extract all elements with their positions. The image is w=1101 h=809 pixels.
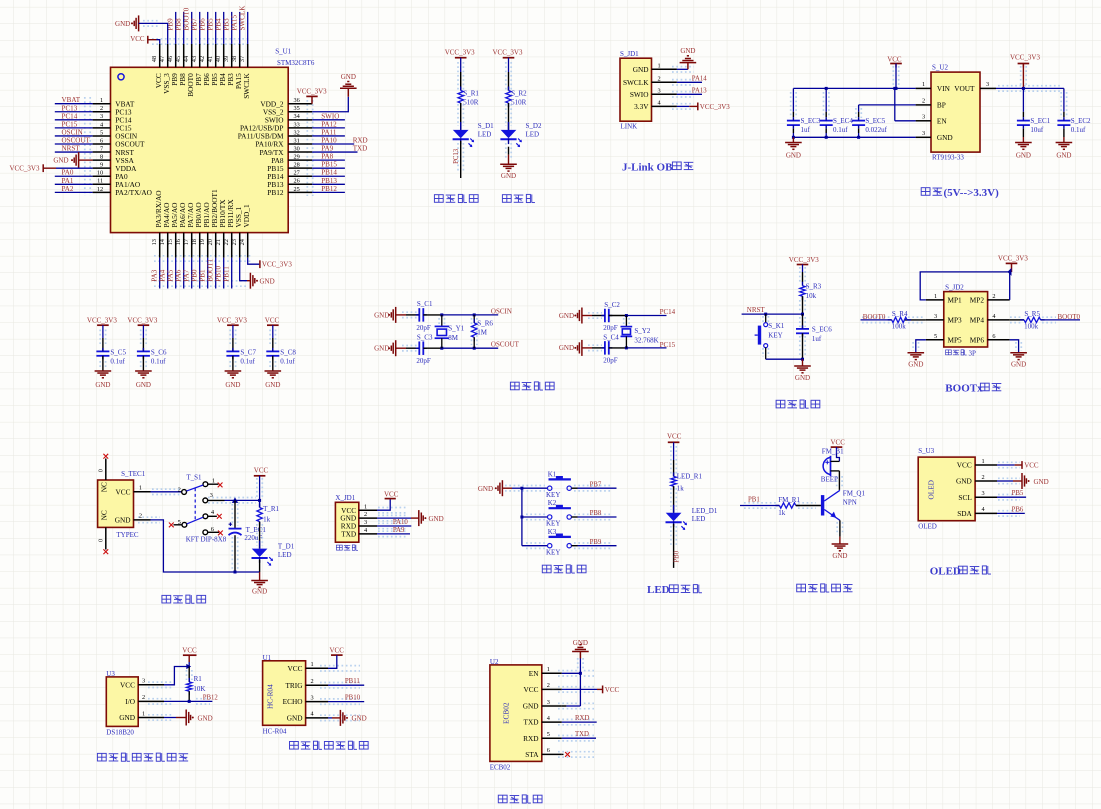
wire: [207, 12, 209, 44]
wire: [312, 143, 354, 145]
svg-text:5: 5: [100, 129, 103, 136]
pin 3 (SWIO): [652, 93, 677, 95]
switch K2: [548, 515, 552, 519]
capacitor S_C5: [96, 350, 109, 352]
pin 4 stub: [208, 515, 217, 517]
svg-text:PA11: PA11: [321, 128, 337, 136]
svg-text:44: 44: [183, 55, 190, 62]
pin 3 (SCL): [975, 496, 997, 498]
pin 44 (BOOT0): [191, 44, 193, 67]
wire: [231, 12, 233, 44]
svg-text:BOOTx: BOOTx: [945, 383, 983, 395]
svg-text:PB1: PB1: [199, 269, 207, 282]
svg-text:2: 2: [992, 293, 995, 300]
wire NRST: [742, 313, 803, 315]
pin 4 (GND): [306, 717, 328, 719]
svg-text:PB5: PB5: [206, 18, 214, 31]
svg-text:PB15: PB15: [321, 161, 337, 169]
svg-text:S_JD1: S_JD1: [620, 50, 639, 58]
svg-text:VCC_3V3: VCC_3V3: [217, 317, 247, 325]
svg-text:U3: U3: [106, 670, 115, 678]
no-connect flag: [218, 531, 223, 536]
wire: [199, 12, 201, 44]
svg-text:HC-R04: HC-R04: [263, 727, 287, 735]
svg-text:1uf: 1uf: [801, 126, 811, 134]
wire: [609, 315, 627, 317]
svg-text:S_EC5: S_EC5: [865, 117, 885, 125]
svg-text:S_R1: S_R1: [463, 90, 479, 98]
svg-text:GND: GND: [1034, 478, 1049, 486]
power symbol VCC: [831, 446, 843, 448]
wire: [312, 151, 357, 153]
svg-text:S_EC3: S_EC3: [801, 117, 821, 125]
svg-text:1M: 1M: [477, 329, 488, 337]
svg-text:KEY: KEY: [546, 548, 560, 556]
svg-text:1: 1: [100, 97, 103, 104]
pin 6 (OSCOUT): [93, 143, 111, 145]
ground: [1015, 142, 1032, 144]
svg-text:GND: GND: [832, 552, 847, 560]
svg-text:SCL: SCL: [958, 493, 972, 502]
pin 47 (VSS_3): [167, 44, 169, 67]
wire VOUT: [996, 87, 1064, 89]
wire: [240, 258, 247, 281]
svg-text:PB8: PB8: [174, 18, 182, 31]
wire OSCIN: [442, 314, 498, 316]
svg-text:STA: STA: [525, 750, 539, 759]
svg-text:OLED: OLED: [926, 480, 935, 499]
power symbol VCC_3V3: [797, 264, 809, 266]
junction: [440, 347, 443, 350]
op-amp U1 body (MCU STM32C8T6): [111, 67, 289, 232]
svg-text:VCC_3V3: VCC_3V3: [445, 49, 475, 57]
svg-text:PB7: PB7: [590, 481, 602, 488]
wire BOOT0: [1041, 319, 1080, 321]
power symbol VCC: [668, 441, 680, 443]
wire: [377, 517, 411, 519]
title 复位电路: [776, 400, 785, 408]
junction: [801, 358, 804, 361]
pin 37 (SWCLK): [247, 44, 249, 67]
power symbol VCC_3V3 tick: [42, 164, 44, 172]
svg-text:NC: NC: [100, 482, 109, 492]
switch K1: [548, 486, 552, 490]
wire: [1010, 319, 1024, 321]
chip orientation mark: [118, 74, 124, 80]
module U2 body: [490, 665, 542, 762]
svg-text:5: 5: [934, 333, 937, 340]
svg-text:FM_Q1: FM_Q1: [843, 489, 866, 497]
svg-text:SDA: SDA: [957, 509, 972, 518]
svg-text:2: 2: [547, 682, 550, 689]
svg-text:RXD: RXD: [523, 734, 538, 743]
pin 3 (GND): [542, 705, 562, 707]
wire GND bus: [151, 520, 260, 572]
svg-text:20pF: 20pF: [603, 324, 618, 332]
pin 33 (PA12/USB/DP): [288, 127, 312, 129]
ground (VSSA): [78, 152, 80, 168]
svg-text:3: 3: [100, 113, 103, 120]
svg-text:GND: GND: [956, 477, 972, 486]
svg-text:1: 1: [212, 477, 215, 484]
pin 13 (PA3/RX/AO): [159, 233, 161, 258]
svg-text:R1: R1: [194, 675, 203, 683]
svg-text:510R: 510R: [511, 98, 526, 106]
svg-text:GND: GND: [260, 277, 275, 285]
pin 3 (VOUT): [980, 87, 996, 89]
title 按键电路: [542, 565, 551, 573]
wire: [272, 356, 274, 371]
svg-text:0.1uf: 0.1uf: [280, 358, 295, 366]
pin 3 (MP3): [926, 319, 944, 321]
svg-text:PA2: PA2: [62, 185, 74, 193]
svg-text:MP1: MP1: [948, 296, 963, 305]
pin 5 (RXD): [542, 737, 562, 739]
pin 39 (PB3): [231, 44, 233, 67]
svg-text:S_R6: S_R6: [477, 320, 493, 328]
wire: [151, 491, 182, 493]
svg-text:BEEP: BEEP: [821, 476, 838, 484]
wire: [328, 701, 364, 703]
svg-text:PA4: PA4: [159, 269, 167, 281]
svg-text:2: 2: [139, 513, 142, 520]
wire loop MP2-MP1: [920, 272, 1010, 300]
wire: [55, 183, 93, 185]
pin 8 (VSSA): [93, 159, 111, 161]
svg-text:12: 12: [97, 186, 103, 193]
pin 25 (PB12): [288, 191, 312, 193]
wire: [312, 191, 345, 193]
wire: [1022, 64, 1024, 89]
pin 1 (VBAT): [93, 103, 111, 105]
svg-text:20pF: 20pF: [416, 324, 431, 332]
svg-text:NRST: NRST: [62, 145, 81, 153]
svg-text:GND: GND: [198, 714, 213, 722]
capacitor S_EC2: [1063, 88, 1065, 111]
svg-text:GND: GND: [559, 312, 574, 320]
svg-text:K1: K1: [548, 470, 557, 478]
svg-text:MP3: MP3: [948, 316, 963, 325]
svg-text:PB13: PB13: [321, 177, 337, 185]
svg-text:0: 0: [97, 469, 104, 472]
svg-text:28: 28: [294, 162, 300, 169]
ground (pin4): [339, 710, 341, 726]
svg-text:GND: GND: [352, 715, 367, 723]
buzzer FM_B1: [823, 457, 830, 474]
wire: [571, 487, 577, 489]
svg-text:PB3: PB3: [222, 18, 230, 31]
resistor S_R5: [1024, 317, 1041, 322]
svg-text:43: 43: [191, 56, 198, 62]
wire: [792, 137, 794, 142]
svg-text:SWIO: SWIO: [321, 112, 339, 120]
svg-text:VCC: VCC: [120, 680, 135, 689]
svg-text:OSCIN: OSCIN: [62, 128, 83, 136]
svg-text:9: 9: [100, 162, 103, 169]
pin 1 (VCC): [975, 464, 997, 466]
svg-text:21: 21: [215, 239, 222, 245]
wire: [460, 58, 462, 72]
switch T_S1: [182, 490, 187, 495]
wire: [423, 347, 442, 349]
wire: [997, 480, 1013, 482]
svg-text:PB9: PB9: [590, 539, 602, 546]
svg-text:GND: GND: [53, 157, 68, 165]
svg-text:3: 3: [934, 313, 937, 320]
svg-text:1: 1: [364, 503, 367, 510]
junction: [440, 313, 443, 316]
svg-text:GND: GND: [115, 20, 130, 28]
wire: [677, 93, 702, 95]
wire: [571, 516, 577, 518]
svg-text:2: 2: [100, 105, 103, 112]
junction: [625, 314, 628, 317]
label 下载口: [336, 545, 342, 550]
junction: [188, 700, 191, 703]
capacitor S_EC6: [802, 314, 804, 329]
junction: [1008, 268, 1012, 276]
svg-text:10k: 10k: [806, 292, 817, 300]
pin 2 (PC13): [93, 111, 111, 113]
pin 2 (GND): [975, 480, 997, 482]
svg-text:EN: EN: [529, 669, 539, 678]
svg-text:VCC_3V3: VCC_3V3: [127, 317, 157, 325]
svg-text:PA14: PA14: [692, 75, 707, 82]
svg-text:14: 14: [159, 238, 166, 245]
pin 24 (VDD_1): [247, 233, 249, 258]
pin 4 (PC15): [93, 127, 111, 129]
svg-text:TYPEC: TYPEC: [116, 531, 138, 539]
wire: [508, 147, 510, 155]
svg-text:10K: 10K: [193, 685, 205, 693]
power symbol VCC_3V3: [1018, 63, 1030, 65]
wire: [188, 655, 190, 662]
svg-text:VCC_3V3: VCC_3V3: [262, 261, 292, 269]
wire: [766, 358, 803, 360]
svg-text:PA10: PA10: [321, 137, 337, 145]
resistor LED_R1: [671, 476, 676, 486]
module S_U3 body: [918, 457, 975, 521]
ground (pin2): [418, 510, 420, 526]
pin 31 (PA10/RX): [288, 143, 312, 145]
wire: [199, 258, 201, 289]
svg-text:5: 5: [547, 731, 550, 738]
pin 26 (PB13): [288, 183, 312, 185]
svg-text:VCC: VCC: [831, 438, 846, 446]
svg-text:PB12: PB12: [321, 185, 337, 193]
wire: [55, 135, 93, 137]
pin 4 (TXD): [359, 533, 377, 535]
svg-text:VCC: VCC: [957, 461, 972, 470]
wire: [838, 471, 840, 490]
wire: [582, 347, 592, 349]
svg-text:VCC: VCC: [605, 686, 620, 694]
svg-text:RT9193-33: RT9193-33: [932, 154, 964, 162]
svg-text:PB4: PB4: [214, 18, 222, 31]
wire: [312, 175, 345, 177]
svg-text:10uf: 10uf: [1030, 126, 1044, 134]
pin 20 (PB2/BOOT1): [215, 233, 217, 258]
svg-text:100k: 100k: [1024, 322, 1039, 330]
svg-text:VCC: VCC: [887, 56, 902, 64]
wire: [396, 347, 406, 349]
no-connect flag: [103, 454, 108, 459]
svg-text:VCC_3V3: VCC_3V3: [700, 103, 730, 111]
svg-text:SWCLK: SWCLK: [238, 5, 246, 31]
svg-text:PB0: PB0: [674, 550, 681, 562]
ground (pin1): [687, 63, 689, 70]
wire: [55, 151, 93, 153]
power symbol VCC: [183, 654, 197, 656]
svg-text:X_JD1: X_JD1: [335, 494, 355, 502]
junction: [764, 313, 767, 316]
connector S_JD1 body: [620, 58, 652, 121]
svg-text:11: 11: [97, 178, 103, 185]
wire: [521, 488, 523, 546]
pin 35 (VSS_2): [288, 111, 312, 113]
pin 19 (PB1/AO): [207, 233, 209, 258]
svg-text:K3: K3: [548, 528, 557, 536]
pin 5 stub: [174, 524, 183, 526]
title 电源电路: [162, 595, 171, 603]
wire: [508, 103, 510, 130]
wire: [55, 143, 93, 145]
wire EN-GND link: [562, 672, 581, 674]
pin 23 (VSS_1): [239, 233, 241, 258]
pin 29 (PA8): [288, 159, 312, 161]
junction: [625, 346, 628, 349]
svg-text:1: 1: [922, 81, 925, 88]
junction: [234, 571, 237, 574]
svg-text:PB12: PB12: [267, 188, 284, 197]
LED S_D2: [508, 122, 510, 130]
title 环境温度采集模块: [97, 753, 106, 761]
ground (pin2): [1021, 473, 1023, 489]
svg-text:16: 16: [175, 239, 182, 245]
wire: [148, 39, 157, 41]
svg-text:17: 17: [183, 239, 190, 245]
svg-text:VCC: VCC: [115, 487, 130, 496]
no-connect flag: [103, 549, 108, 554]
wire: [562, 705, 567, 707]
wire: [175, 258, 177, 289]
svg-text:GND: GND: [1016, 151, 1031, 159]
svg-text:U1: U1: [263, 654, 272, 662]
wire OSCOUT: [442, 347, 498, 349]
pin 1 (GND): [138, 717, 164, 719]
svg-text:1: 1: [139, 485, 142, 492]
pin 6 (STA): [542, 753, 562, 755]
wire: [377, 525, 411, 527]
svg-text:3: 3: [658, 87, 661, 94]
svg-text:PC13: PC13: [453, 148, 460, 164]
power symbol VCC tick: [602, 686, 604, 694]
svg-text:VBAT: VBAT: [62, 96, 81, 104]
svg-text:LED_R1: LED_R1: [677, 472, 703, 480]
pin 9 (VDDA): [93, 167, 111, 169]
pin 16 (PA6/AO): [183, 233, 185, 258]
svg-text:PA10: PA10: [393, 519, 408, 526]
svg-text:TRIG: TRIG: [285, 681, 303, 690]
wire: [740, 505, 779, 507]
svg-text:S_C6: S_C6: [151, 349, 167, 357]
svg-text:PC14: PC14: [62, 112, 78, 120]
svg-text:PB0: PB0: [191, 269, 199, 282]
junction: [1022, 87, 1025, 90]
power symbol VCC: [385, 498, 396, 500]
pin 2 (GND): [134, 519, 151, 521]
svg-text:PA7: PA7: [183, 269, 191, 281]
ground: [500, 163, 517, 165]
pin 27 (PB14): [288, 175, 312, 177]
svg-text:S_D1: S_D1: [478, 122, 494, 130]
svg-text:NRST: NRST: [747, 306, 766, 314]
pin 2 (TRIG): [306, 684, 328, 686]
svg-text:OLED: OLED: [918, 522, 937, 530]
ground: [95, 370, 112, 372]
svg-text:ECHO: ECHO: [283, 697, 303, 706]
wire: [191, 258, 193, 289]
svg-text:3: 3: [922, 130, 925, 137]
svg-text:LED_D1: LED_D1: [692, 507, 718, 515]
svg-text:38: 38: [231, 56, 238, 62]
ground: [251, 580, 268, 582]
power symbol VCC_3V3: [138, 324, 150, 326]
pin 0 bottom: [105, 527, 107, 549]
connector S_TEC1 body: [98, 480, 134, 527]
svg-text:18: 18: [191, 239, 198, 245]
LED S_D1: [460, 122, 462, 130]
wire: [312, 159, 345, 161]
capacitor S_C6: [137, 350, 150, 352]
wire: [522, 545, 548, 547]
regulator S_U2 body: [931, 72, 980, 152]
svg-text:KEY: KEY: [546, 491, 560, 499]
pin 1 (GND): [652, 68, 677, 70]
svg-text:GND: GND: [908, 361, 923, 369]
wire: [609, 347, 627, 349]
svg-text:OSCOUT: OSCOUT: [491, 341, 520, 349]
svg-text:GND: GND: [252, 588, 267, 596]
svg-text:EN: EN: [937, 116, 947, 125]
wire: [102, 325, 104, 338]
power symbol VCC: [254, 475, 266, 477]
pin 3 (RXD): [359, 525, 377, 527]
ground (C2): [581, 308, 583, 324]
wire: [997, 464, 1015, 466]
wire: [522, 516, 548, 518]
svg-text:23: 23: [231, 239, 238, 245]
svg-text:STM32C8T6: STM32C8T6: [277, 59, 315, 67]
pin 0 top: [105, 459, 107, 481]
svg-text:FM_B1: FM_B1: [822, 448, 844, 456]
svg-text:MP4: MP4: [970, 316, 985, 325]
svg-text:VCC_3V3: VCC_3V3: [1010, 54, 1040, 62]
power symbol VCC_3V3: [97, 324, 109, 326]
junction: [579, 672, 582, 675]
power symbol VCC tick: [147, 36, 149, 44]
svg-text:PA9: PA9: [321, 145, 333, 153]
svg-text:PB12: PB12: [203, 694, 219, 701]
svg-text:GND: GND: [478, 485, 493, 493]
wire: [837, 447, 840, 461]
pin 18 (PB0/AO): [199, 233, 201, 258]
wire: [802, 296, 804, 314]
pin 22 (PB11/RX): [231, 233, 233, 258]
wire: [562, 737, 596, 739]
wire: [582, 315, 592, 317]
svg-text:33: 33: [294, 121, 300, 128]
